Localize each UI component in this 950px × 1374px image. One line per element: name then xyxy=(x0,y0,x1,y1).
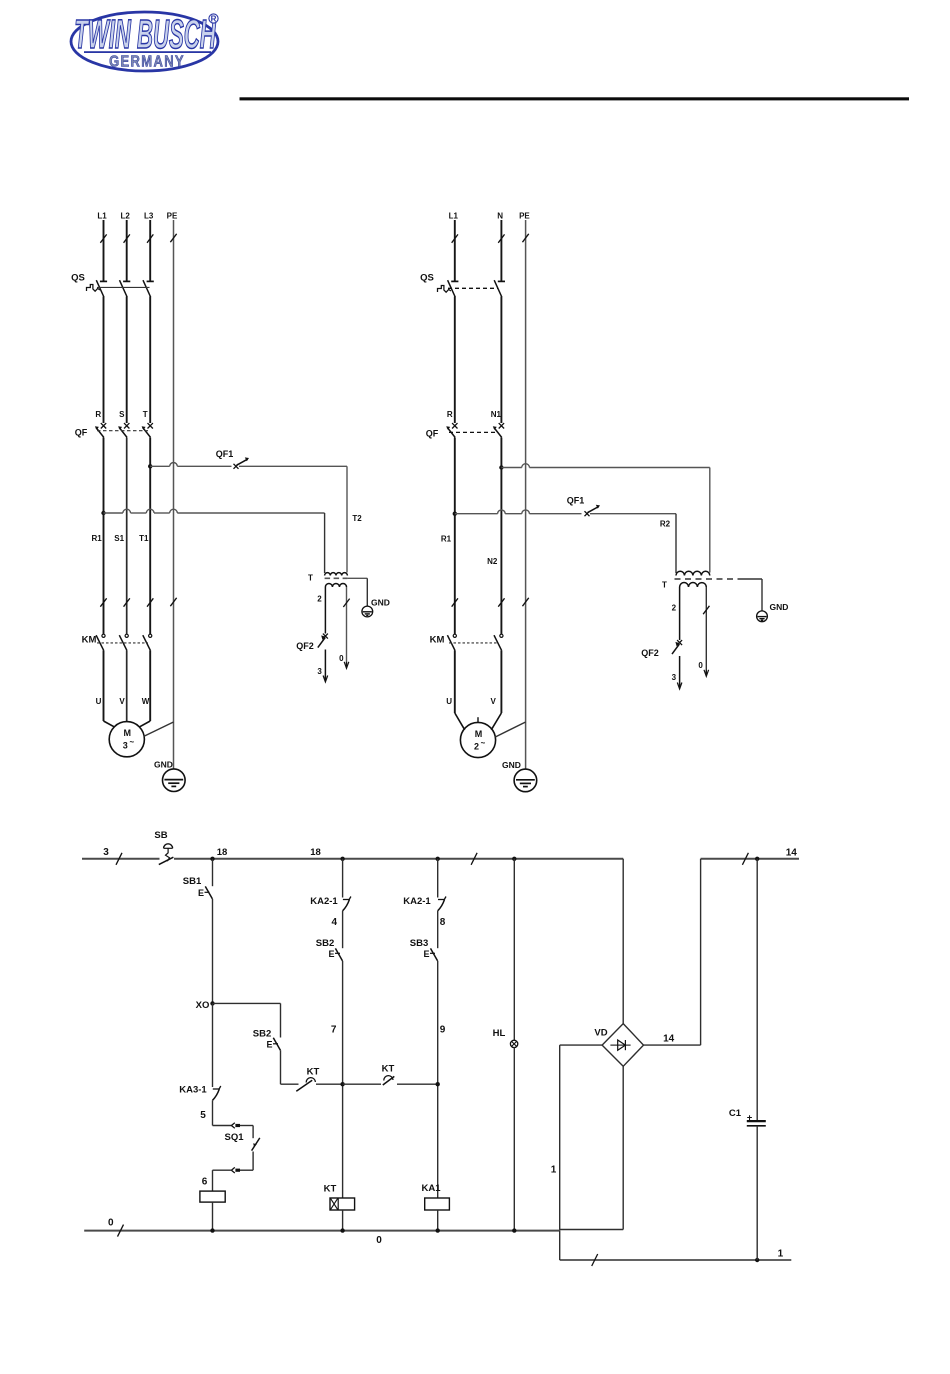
svg-text:QF1: QF1 xyxy=(567,496,585,506)
svg-text:8: 8 xyxy=(440,917,446,928)
svg-text:VD: VD xyxy=(594,1028,607,1039)
svg-text:U: U xyxy=(446,697,452,706)
svg-text:S: S xyxy=(119,410,125,419)
svg-text:L1: L1 xyxy=(449,212,459,221)
svg-text:~: ~ xyxy=(481,738,486,747)
svg-text:T1: T1 xyxy=(139,534,149,543)
svg-text:R: R xyxy=(95,410,101,419)
svg-text:SB2: SB2 xyxy=(316,938,334,949)
svg-text:14: 14 xyxy=(663,1033,675,1044)
svg-text:HL: HL xyxy=(493,1028,506,1039)
svg-text:2: 2 xyxy=(474,741,479,751)
svg-text:0: 0 xyxy=(698,661,703,670)
svg-text:14: 14 xyxy=(786,848,798,859)
svg-text:KM: KM xyxy=(430,635,445,646)
svg-text:KA1: KA1 xyxy=(421,1183,441,1194)
svg-text:0: 0 xyxy=(108,1217,114,1228)
svg-text:XO: XO xyxy=(196,1000,210,1011)
svg-text:C1: C1 xyxy=(729,1108,742,1119)
svg-text:1: 1 xyxy=(551,1165,557,1176)
svg-text:QF2: QF2 xyxy=(641,648,659,658)
svg-text:GND: GND xyxy=(770,602,789,612)
svg-text:W: W xyxy=(142,697,150,706)
svg-text:GERMANY: GERMANY xyxy=(109,54,185,71)
svg-text:L3: L3 xyxy=(144,212,154,221)
svg-text:M: M xyxy=(475,729,483,739)
svg-text:9: 9 xyxy=(440,1025,446,1036)
svg-text:PE: PE xyxy=(519,212,530,221)
svg-text:4: 4 xyxy=(332,917,338,928)
svg-text:SQ1: SQ1 xyxy=(224,1132,244,1143)
svg-text:QF: QF xyxy=(75,428,88,438)
svg-text:SB2: SB2 xyxy=(253,1029,271,1040)
svg-text:SB: SB xyxy=(154,830,167,841)
svg-text:3: 3 xyxy=(672,673,677,682)
svg-text:QF: QF xyxy=(426,429,439,439)
svg-text:QF1: QF1 xyxy=(216,449,234,459)
svg-text:R1: R1 xyxy=(91,534,102,543)
svg-text:M: M xyxy=(124,728,132,738)
svg-text:PE: PE xyxy=(167,212,178,221)
svg-text:TWIN BUSCH: TWIN BUSCH xyxy=(74,11,216,57)
svg-text:N: N xyxy=(497,212,503,221)
svg-text:3: 3 xyxy=(317,667,322,676)
svg-text:KA2-1: KA2-1 xyxy=(310,896,338,907)
svg-text:7: 7 xyxy=(331,1025,337,1036)
svg-text:6: 6 xyxy=(202,1177,208,1188)
svg-text:E: E xyxy=(266,1040,272,1050)
svg-text:3: 3 xyxy=(123,741,128,751)
svg-text:E: E xyxy=(328,949,334,959)
svg-text:GND: GND xyxy=(371,597,390,607)
svg-text:KT: KT xyxy=(382,1064,395,1075)
svg-text:N2: N2 xyxy=(487,557,498,566)
svg-text:18: 18 xyxy=(310,847,321,858)
svg-text:KT: KT xyxy=(307,1067,320,1078)
svg-text:T: T xyxy=(662,581,667,590)
svg-text:GND: GND xyxy=(502,760,521,770)
svg-text:SB3: SB3 xyxy=(410,938,428,949)
svg-text:U: U xyxy=(96,697,102,706)
svg-text:E: E xyxy=(198,888,204,898)
svg-text:0: 0 xyxy=(339,654,344,663)
svg-text:R1: R1 xyxy=(441,535,452,544)
svg-text:E: E xyxy=(423,949,429,959)
svg-text:T: T xyxy=(143,410,148,419)
svg-text:N1: N1 xyxy=(491,410,502,419)
svg-text:V: V xyxy=(119,697,125,706)
svg-text:QS: QS xyxy=(420,273,434,284)
svg-text:0: 0 xyxy=(376,1235,382,1246)
svg-text:KM: KM xyxy=(82,635,97,646)
svg-text:KA2-1: KA2-1 xyxy=(403,896,431,907)
svg-text:R: R xyxy=(211,15,217,24)
svg-text:L1: L1 xyxy=(97,212,107,221)
svg-text:KT: KT xyxy=(324,1184,337,1195)
svg-text:QF2: QF2 xyxy=(296,641,314,651)
svg-text:3: 3 xyxy=(103,847,109,858)
svg-text:GND: GND xyxy=(154,760,173,770)
svg-text:L2: L2 xyxy=(121,212,131,221)
svg-text:2: 2 xyxy=(672,604,677,613)
svg-text:S1: S1 xyxy=(114,534,124,543)
svg-text:T2: T2 xyxy=(352,514,362,523)
svg-text:2: 2 xyxy=(317,595,322,604)
svg-text:V: V xyxy=(491,697,497,706)
svg-text:KA3-1: KA3-1 xyxy=(179,1085,207,1096)
svg-text:18: 18 xyxy=(217,847,228,858)
svg-text:1: 1 xyxy=(778,1249,784,1260)
svg-text:R2: R2 xyxy=(660,519,671,528)
svg-text:~: ~ xyxy=(129,738,134,747)
svg-text:QS: QS xyxy=(71,273,85,284)
svg-text:5: 5 xyxy=(200,1110,206,1121)
svg-text:SB1: SB1 xyxy=(183,876,202,887)
svg-text:R: R xyxy=(447,410,453,419)
svg-text:T: T xyxy=(308,574,313,583)
